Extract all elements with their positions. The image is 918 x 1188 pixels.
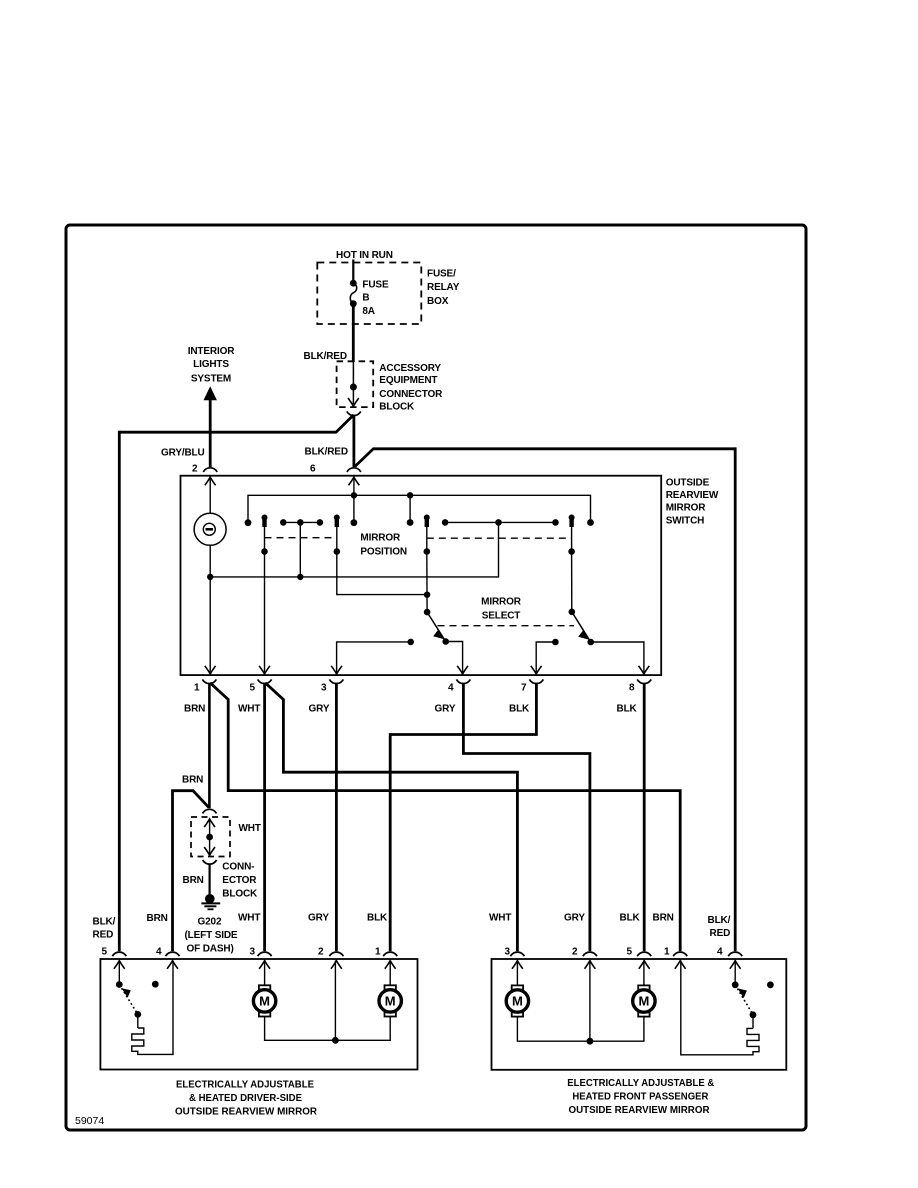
svg-text:GRY: GRY	[435, 704, 456, 715]
female terminal below switch pin 7	[529, 679, 543, 683]
wire driver pin 1 to motor	[389, 961, 391, 986]
wire driver pin 2 to bus	[334, 961, 336, 1041]
svg-text:WHT: WHT	[239, 823, 261, 834]
junction in accessory block	[350, 384, 357, 391]
female terminal below switch pin 5	[258, 679, 272, 683]
wire pin 6 to contact row	[353, 477, 355, 523]
wire branch diagonal to left BLK/RED net	[119, 415, 353, 432]
svg-text:INTERIOR: INTERIOR	[188, 346, 236, 357]
junction node lamp to dimmer bus	[207, 574, 213, 580]
wire to passenger heater	[752, 1015, 754, 1029]
svg-text:GRY: GRY	[564, 912, 585, 923]
female terminal below accessory block	[347, 411, 361, 415]
male pin arrow switch pin 2 (inside box)	[205, 477, 216, 485]
male pin arrow passenger mirror pin 4	[730, 961, 741, 969]
female terminal below switch pin 8	[637, 679, 651, 683]
male pin arrow driver mirror pin 4	[167, 961, 178, 969]
T contact T2	[442, 519, 559, 526]
mirror select right alternate contact	[552, 639, 559, 646]
driver side mirror box	[100, 959, 417, 1070]
svg-text:4: 4	[448, 683, 454, 694]
svg-text:CONN-: CONN-	[222, 862, 254, 873]
wire wiper W1 to pin 5	[264, 552, 266, 675]
arrow to interior lights system	[204, 386, 217, 400]
illumination lamp	[194, 513, 226, 545]
junction inside connector block	[206, 834, 213, 841]
svg-text:ECTOR: ECTOR	[222, 875, 257, 886]
svg-text:HEATED FRONT PASSENGER: HEATED FRONT PASSENGER	[572, 1091, 708, 1103]
wire GRY switch pin 4 to passenger mirror pin 2	[463, 684, 590, 952]
wire WHT switch pin 5 to driver mirror pin 3	[263, 684, 266, 952]
male pin arrow switch pin 3 (inside box, down)	[331, 666, 342, 674]
female terminal switch pin 2	[203, 468, 217, 472]
wire hot-in-run into fuse	[352, 260, 354, 284]
svg-text:8: 8	[629, 683, 635, 694]
wire passenger pin 3 to motor	[516, 961, 518, 986]
svg-text:CONNECTOR: CONNECTOR	[379, 389, 443, 400]
male pin arrow passenger mirror pin 5	[639, 961, 650, 969]
mirror select switch left: pivot	[424, 609, 431, 616]
wire passenger pin 4 to heater switch	[734, 961, 736, 985]
male pin arrow switch pin 6 (inside box)	[349, 477, 360, 485]
svg-text:MIRROR: MIRROR	[666, 502, 707, 513]
svg-text:B: B	[362, 293, 369, 304]
svg-text:BOX: BOX	[427, 296, 449, 307]
svg-text:G202: G202	[198, 917, 222, 928]
svg-text:1: 1	[375, 947, 381, 958]
motor driver left-right M1	[253, 985, 275, 1016]
contact dot right feed	[587, 519, 594, 526]
svg-text:REARVIEW: REARVIEW	[666, 490, 719, 501]
svg-text:FUSE: FUSE	[362, 280, 389, 291]
motor passenger up-down M4	[633, 985, 655, 1016]
passenger heater switch alternate contact	[767, 981, 774, 988]
svg-text:3: 3	[250, 947, 256, 958]
wire BLK switch pin 8 to passenger mirror pin 5	[643, 684, 646, 952]
junction passenger common bus	[587, 1038, 594, 1045]
male pin arrow driver mirror pin 1	[385, 961, 396, 969]
svg-text:BRN: BRN	[182, 775, 203, 786]
female terminal below switch pin 3	[329, 679, 343, 683]
wiper contact W4 (mirror position right, pin8 side)	[568, 515, 575, 555]
svg-text:BRN: BRN	[147, 913, 168, 924]
driver mirror heater element	[132, 961, 173, 1055]
svg-text:OF DASH): OF DASH)	[187, 944, 234, 955]
feed drop to contact row mid-left	[409, 495, 411, 522]
junction select common	[424, 592, 430, 598]
svg-text:59074: 59074	[75, 1115, 104, 1127]
svg-text:1: 1	[664, 947, 670, 958]
motor driver up-down M2	[379, 985, 401, 1016]
mechanical link mirror position left (dashed)	[265, 537, 337, 539]
male pin arrow switch pin 8 (inside box, down)	[639, 666, 650, 674]
svg-text:GRY: GRY	[308, 912, 329, 923]
wire BRN branch to driver mirror pin 4	[173, 791, 209, 952]
male pin arrow driver mirror pin 2	[331, 961, 342, 969]
male pin arrow connector block top	[204, 819, 215, 827]
accessory equipment connector block (dashed)	[337, 361, 374, 407]
contact dot mid-left feed	[407, 519, 414, 526]
svg-text:4: 4	[717, 947, 723, 958]
svg-text:5: 5	[102, 947, 108, 958]
male pin arrow switch pin 5 (inside box, down)	[259, 666, 270, 674]
svg-text:5: 5	[627, 947, 633, 958]
female terminal below switch pin 4	[456, 679, 470, 683]
wire to driver heater	[137, 1014, 139, 1028]
male pin arrow (accessory block)	[348, 398, 359, 406]
wire BRN branch pin 1 to passenger mirror pin 1	[210, 683, 680, 952]
svg-text:LIGHTS: LIGHTS	[193, 359, 229, 370]
svg-text:BLK: BLK	[617, 704, 638, 715]
male pin arrow driver mirror pin 3	[259, 961, 270, 969]
svg-text:5: 5	[250, 683, 256, 694]
svg-text:EQUIPMENT: EQUIPMENT	[379, 375, 437, 386]
svg-text:BLK/: BLK/	[93, 917, 116, 928]
mirror select left alternate contact	[407, 639, 414, 646]
wire select left arm to pin 4	[446, 642, 463, 675]
svg-text:POSITION: POSITION	[360, 547, 407, 558]
wire pin 2 to lamp	[209, 477, 211, 514]
svg-text:SYSTEM: SYSTEM	[191, 374, 231, 385]
contact dot left feed	[245, 519, 252, 526]
male pin arrow switch pin 7 (inside box, down)	[531, 666, 542, 674]
svg-text:BLK: BLK	[509, 704, 530, 715]
top feed bus inside switch	[248, 495, 591, 522]
wire WHT branch pin 5 to passenger mirror pin 3	[265, 683, 517, 952]
svg-text:MIRROR: MIRROR	[481, 597, 522, 608]
mirror select switch left: arm	[427, 612, 449, 645]
svg-text:SELECT: SELECT	[482, 610, 521, 621]
wire wiper W2 to select common	[337, 552, 427, 595]
svg-text:RED: RED	[710, 928, 731, 939]
svg-text:7: 7	[521, 683, 527, 694]
driver heater switch contact	[116, 981, 123, 988]
wire BRN connector block to ground	[209, 865, 211, 899]
wire passenger motor bus	[517, 1017, 644, 1042]
wire select right alternate to pin 7	[536, 642, 555, 675]
female terminal driver mirror pin 2	[329, 952, 343, 956]
male pin arrow switch pin 4 (inside box, down)	[457, 666, 468, 674]
fuse/relay box (dashed)	[317, 263, 421, 325]
svg-text:HOT IN RUN: HOT IN RUN	[336, 250, 393, 261]
female terminal passenger mirror pin 4	[728, 952, 742, 956]
svg-text:6: 6	[310, 464, 316, 475]
svg-text:BLK: BLK	[620, 912, 641, 923]
svg-text:ELECTRICALLY ADJUSTABLE &: ELECTRICALLY ADJUSTABLE &	[567, 1077, 714, 1089]
female terminal passenger mirror pin 3	[510, 952, 524, 956]
svg-text:3: 3	[505, 947, 511, 958]
junction driver common bus	[332, 1037, 339, 1044]
T contact T1	[280, 519, 323, 577]
mirror select switch right: arm	[572, 612, 594, 646]
wire driver pin 3 to motor	[264, 961, 266, 986]
female terminal driver mirror pin 3	[258, 952, 272, 956]
wire inside connector block	[209, 819, 211, 855]
wire wiper W4 to select pivot right	[571, 552, 573, 612]
svg-text:GRY: GRY	[309, 704, 330, 715]
svg-text:BLK/RED: BLK/RED	[305, 447, 348, 458]
svg-text:& HEATED DRIVER-SIDE: & HEATED DRIVER-SIDE	[189, 1092, 302, 1104]
svg-text:4: 4	[156, 947, 162, 958]
lamp bus horizontal	[210, 522, 498, 577]
wire driver pin 5 to heater switch	[118, 961, 120, 985]
female terminal passenger mirror pin 1	[673, 952, 687, 956]
mechanical link mirror position right (dashed)	[427, 537, 572, 539]
driver heater switch arm	[119, 985, 141, 1018]
female terminal connector block bottom	[203, 860, 217, 864]
wire wiper W3 to select pivot	[426, 552, 428, 613]
wire passenger pin 5 to motor	[643, 961, 645, 986]
wire BRN switch pin 1 to connector block	[208, 684, 211, 808]
female terminal driver mirror pin 4	[166, 952, 180, 956]
svg-text:2: 2	[192, 464, 198, 475]
wire inside accessory block	[352, 362, 354, 404]
wire BLK switch pin 7 to driver mirror pin 1	[390, 684, 536, 952]
svg-text:RELAY: RELAY	[427, 282, 460, 293]
wire GRY switch pin 3 to driver mirror pin 2	[335, 684, 338, 952]
male pin arrow passenger mirror pin 3	[512, 961, 523, 969]
wire BLK/RED accessory connector to switch pin 6	[352, 416, 355, 468]
svg-text:BLK: BLK	[367, 912, 388, 923]
wire BLK/RED right vertical to passenger mirror pin 4	[734, 447, 737, 951]
ground G202	[201, 894, 220, 909]
junction pin 6 on top bus	[351, 492, 357, 498]
connector block (dashed)	[191, 817, 230, 857]
male pin arrow connector block bottom	[204, 847, 215, 855]
svg-text:WHT: WHT	[489, 912, 511, 923]
svg-text:OUTSIDE REARVIEW MIRROR: OUTSIDE REARVIEW MIRROR	[175, 1106, 317, 1118]
svg-text:BRN: BRN	[183, 875, 204, 886]
wire BLK/RED left vertical to driver mirror pin 5	[118, 431, 121, 952]
svg-text:BRN: BRN	[653, 912, 674, 923]
wire lamp to pin 1	[209, 545, 211, 674]
wire GRY/BLU switch pin 2 to interior lights	[209, 399, 212, 467]
wire select right arm to pin 8	[591, 642, 644, 675]
wiper contact W3 (mirror position right)	[424, 515, 431, 555]
svg-text:GRY/BLU: GRY/BLU	[161, 448, 205, 459]
svg-text:OUTSIDE REARVIEW MIRROR: OUTSIDE REARVIEW MIRROR	[569, 1104, 710, 1116]
svg-text:ACCESSORY: ACCESSORY	[379, 363, 441, 374]
mirror select switch right: pivot	[569, 609, 576, 616]
svg-text:(LEFT SIDE: (LEFT SIDE	[185, 930, 238, 941]
svg-text:BLOCK: BLOCK	[379, 401, 415, 412]
female terminal passenger mirror pin 2	[583, 952, 597, 956]
female terminal driver mirror pin 1	[383, 952, 397, 956]
svg-text:BLK/: BLK/	[708, 915, 731, 926]
mechanical link mirror select (dashed)	[438, 625, 575, 627]
passenger mirror heater element	[681, 961, 759, 1055]
wire driver motor bus	[265, 1017, 391, 1041]
female terminal switch pin 6	[347, 468, 361, 472]
svg-text:ELECTRICALLY ADJUSTABLE: ELECTRICALLY ADJUSTABLE	[176, 1079, 314, 1091]
svg-text:3: 3	[321, 683, 327, 694]
junction feed drop	[407, 492, 413, 498]
svg-text:BLK/RED: BLK/RED	[304, 351, 347, 362]
svg-text:2: 2	[318, 947, 324, 958]
male pin arrow driver mirror pin 5	[114, 961, 125, 969]
contact dot pin 6 feed	[351, 519, 358, 526]
svg-text:FUSE/: FUSE/	[427, 269, 456, 280]
junction T1 on lamp bus	[297, 574, 303, 580]
passenger side mirror box	[492, 959, 787, 1070]
diagram border frame	[66, 225, 806, 1130]
outside rearview mirror switch box	[181, 476, 662, 675]
male pin arrow switch pin 1 (inside box, down)	[205, 666, 216, 674]
wire passenger pin 2 to bus	[589, 961, 591, 1042]
svg-text:BRN: BRN	[184, 704, 205, 715]
motor passenger left-right M3	[506, 985, 528, 1016]
wire BLK/RED fuse to accessory connector block	[352, 304, 355, 362]
driver heater switch alternate contact	[152, 981, 159, 988]
male pin arrow passenger mirror pin 1	[675, 961, 686, 969]
female terminal below switch pin 1	[202, 679, 216, 683]
female terminal driver mirror pin 5	[112, 952, 126, 956]
male pin arrow passenger mirror pin 2	[585, 961, 596, 969]
wiper contact W1 (mirror position left, pin5)	[261, 515, 268, 555]
svg-text:MIRROR: MIRROR	[360, 533, 401, 544]
passenger heater switch arm	[735, 985, 756, 1018]
wiper contact W2 (mirror position left, pin3 side)	[334, 515, 341, 555]
female terminal connector block top	[203, 809, 217, 813]
fuse B 8A	[350, 280, 357, 307]
svg-text:WHT: WHT	[238, 704, 260, 715]
female terminal passenger mirror pin 5	[637, 952, 651, 956]
svg-text:BLOCK: BLOCK	[222, 889, 258, 900]
svg-text:SWITCH: SWITCH	[666, 515, 705, 526]
passenger heater switch contact	[732, 981, 739, 988]
svg-text:OUTSIDE: OUTSIDE	[666, 478, 710, 489]
svg-text:2: 2	[572, 947, 578, 958]
svg-text:1: 1	[194, 683, 200, 694]
svg-text:8A: 8A	[362, 306, 374, 317]
wire branch diagonal from switch pin 6 to passenger BLK/RED net	[355, 449, 735, 467]
svg-text:WHT: WHT	[238, 912, 260, 923]
svg-text:RED: RED	[93, 930, 114, 941]
wire select left alternate to pin 3	[337, 642, 411, 675]
